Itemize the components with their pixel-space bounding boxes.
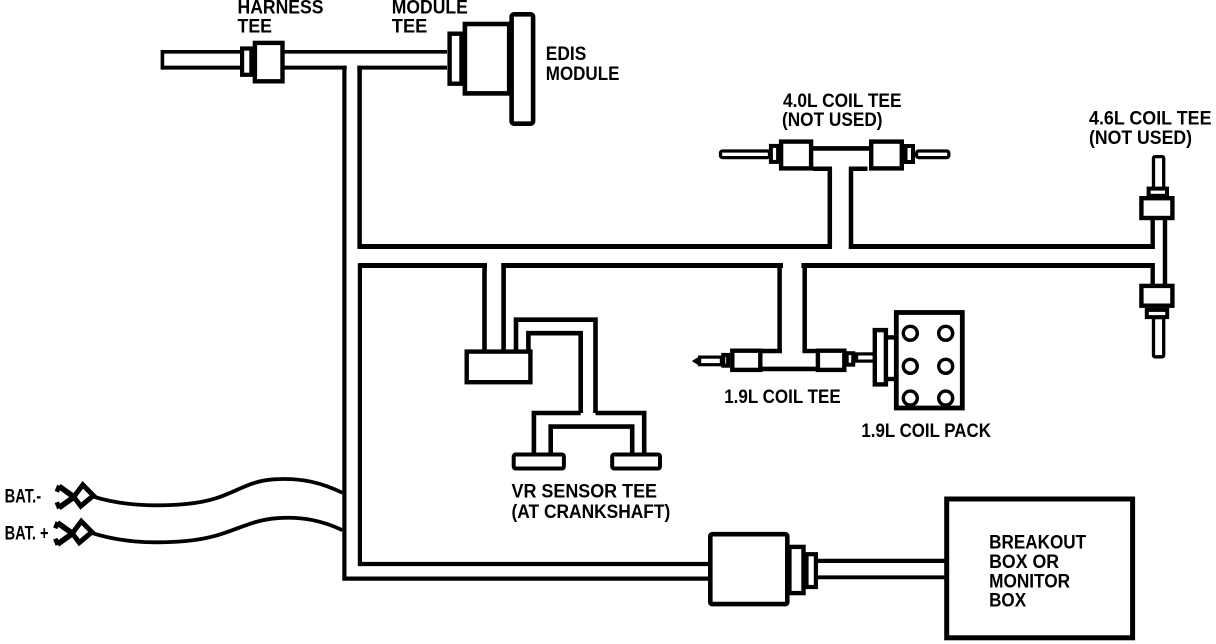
coil pack flange xyxy=(875,330,886,384)
4.6L tee bottom connector box xyxy=(1141,286,1172,306)
breakout connector taper box 2 xyxy=(807,554,816,587)
4.0L tee lower shelf right xyxy=(849,167,868,172)
4.0L tee link bar xyxy=(812,146,870,151)
VR sensor tee riser ribbon inner edge xyxy=(528,333,580,413)
coil pack terminal circle 1 xyxy=(903,326,917,340)
wire: 1.9L tee branch left edge xyxy=(777,263,782,353)
VR sensor tee riser ribbon outer edge xyxy=(516,320,596,413)
BAT+ clip jaw upper hook xyxy=(55,522,58,528)
1.9L tee left taper box xyxy=(723,355,728,366)
BAT- diamond xyxy=(74,485,94,506)
svg-text:EDIS: EDIS xyxy=(546,44,587,65)
4.6L tee top connector box xyxy=(1141,198,1172,218)
wire: harness lead bottom edge left of branch xyxy=(162,66,347,70)
wire: VR sensor branch left edge xyxy=(482,263,487,352)
VR sensor tee bridge bottom and inner leg edges xyxy=(551,427,633,454)
4.6L tee bottom lead wire xyxy=(1154,318,1164,357)
svg-text:TEE: TEE xyxy=(238,17,273,38)
EDIS module body box xyxy=(465,24,509,93)
1.9L tee right lead wire xyxy=(857,354,875,361)
4.6L tee top taper box xyxy=(1149,189,1167,196)
harness tee small box xyxy=(242,49,251,75)
svg-text:(NOT USED): (NOT USED) xyxy=(1089,128,1192,149)
1.9L tee left lead wire xyxy=(700,357,722,365)
breakout box xyxy=(947,499,1133,638)
wire: main vertical ribbon left edge, turning right at bottom toward breakout connector xyxy=(344,66,710,579)
wire to breakout box bottom edge xyxy=(814,575,946,579)
wire: 4.0L tee branch left edge xyxy=(828,167,833,249)
coil pack terminal circle 3 xyxy=(903,359,917,373)
coil pack upper tab xyxy=(886,335,896,339)
bus 1 left segment xyxy=(359,244,832,249)
svg-text:4.6L COIL TEE: 4.6L COIL TEE xyxy=(1089,109,1212,130)
wire: harness lead bottom edge right of branch xyxy=(357,66,447,70)
svg-text:BREAKOUT: BREAKOUT xyxy=(989,533,1086,554)
wire: harness lead top edge xyxy=(162,50,448,54)
svg-text:BOX: BOX xyxy=(989,591,1026,612)
wire: harness lead left end cap xyxy=(161,50,165,70)
svg-text:4.0L COIL TEE: 4.0L COIL TEE xyxy=(783,91,902,112)
BAT- wire xyxy=(93,479,343,505)
module tee small box xyxy=(450,34,462,84)
wire: 1.9L tee branch right edge xyxy=(802,263,807,353)
VR sensor tee right foot xyxy=(612,455,660,469)
svg-text:BOX OR: BOX OR xyxy=(989,552,1059,573)
wire: main vertical ribbon right edge lower segment, turning right at bottom xyxy=(360,263,710,564)
1.9L tee right taper box xyxy=(847,353,854,365)
BAT+ wire xyxy=(91,518,343,543)
harness tee large box xyxy=(255,43,283,81)
breakout connector box xyxy=(710,534,787,604)
coil pack terminal circle 2 xyxy=(939,326,953,340)
svg-text:BAT.-: BAT.- xyxy=(5,487,42,508)
BAT+ clip jaw xyxy=(58,523,73,544)
wire to breakout box top edge xyxy=(814,559,946,563)
svg-text:BAT. +: BAT. + xyxy=(5,524,49,545)
VR sensor tee bridge top-left and left leg outer edge xyxy=(534,413,581,454)
coil pack lower tab xyxy=(886,377,896,381)
wire: main vertical ribbon right edge upper segment (down to bus 1) xyxy=(357,66,362,249)
VR sensor tee bridge top-right and right leg outer edge xyxy=(596,413,645,454)
svg-text:VR SENSOR TEE: VR SENSOR TEE xyxy=(512,482,658,503)
bus 2 segment 3 xyxy=(801,263,1150,268)
4.0L tee right connector box xyxy=(871,142,902,169)
BAT- clip jaw upper hook xyxy=(57,486,60,492)
svg-text:(NOT USED): (NOT USED) xyxy=(782,110,883,131)
4.0L tee left taper box xyxy=(771,146,778,162)
svg-text:1.9L COIL PACK: 1.9L COIL PACK xyxy=(861,421,991,442)
1.9L coil pack box xyxy=(896,313,962,409)
BAT- clip jaw lower hook xyxy=(57,502,60,508)
VR sensor tee left foot xyxy=(514,455,564,469)
EDIS module flange box xyxy=(512,14,533,123)
1.9L tee link bottom edge xyxy=(762,367,817,372)
BAT+ clip jaw lower hook xyxy=(55,539,58,545)
VR sensor tee body box xyxy=(467,352,531,383)
breakout connector taper box 1 xyxy=(789,547,803,593)
4.6L tee top lead wire xyxy=(1154,157,1164,189)
4.6L tee middle ribbon left edge lower segment xyxy=(1150,263,1154,286)
1.9L tee left connector box xyxy=(732,351,760,370)
4.6L tee middle ribbon right edge xyxy=(1163,218,1167,286)
svg-text:MODULE: MODULE xyxy=(546,64,620,85)
4.6L tee bottom taper box xyxy=(1147,310,1167,317)
1.9L tee link top shelf left xyxy=(762,349,782,353)
4.0L tee right taper box xyxy=(906,146,914,162)
svg-text:TEE: TEE xyxy=(392,17,428,38)
coil pack terminal circle 4 xyxy=(939,359,953,373)
svg-text:1.9L COIL TEE: 1.9L COIL TEE xyxy=(724,387,841,408)
BAT- clip jaw xyxy=(59,486,74,507)
svg-text:(AT CRANKSHAFT): (AT CRANKSHAFT) xyxy=(512,502,671,523)
4.0L tee lower shelf left xyxy=(813,167,832,172)
1.9L tee link top shelf right xyxy=(803,349,817,353)
4.0L tee left connector box xyxy=(781,142,811,169)
bus 1 right segment xyxy=(849,244,1151,249)
4.6L tee middle ribbon left edge upper segment xyxy=(1150,218,1154,249)
4.0L tee right lead wire xyxy=(917,151,949,158)
wire: 4.0L tee branch right edge xyxy=(849,167,854,249)
BAT+ diamond xyxy=(72,521,92,542)
1.9L tee middle connector box xyxy=(818,351,844,370)
4.0L tee left lead wire xyxy=(721,151,770,158)
bus 2 segment 2 xyxy=(501,263,783,268)
1.9L tee left tip arrow xyxy=(692,356,700,366)
coil pack terminal circle 6 xyxy=(939,391,953,405)
coil pack terminal circle 5 xyxy=(903,391,917,405)
wire: VR sensor branch right edge xyxy=(501,263,506,352)
bus 2 segment 1 xyxy=(359,263,487,268)
